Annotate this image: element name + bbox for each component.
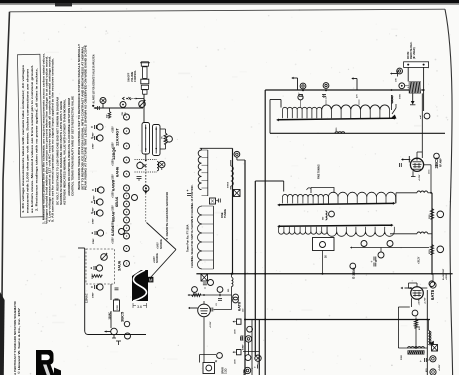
choke L21	[408, 347, 425, 349]
svg-text:6AH6: 6AH6	[115, 166, 120, 177]
callout 50	[192, 287, 198, 293]
wire chain2 output	[395, 193, 397, 204]
tube pin callout 7	[124, 193, 130, 199]
capacitor C20 fine tuning	[218, 199, 220, 203]
solder point callout 30	[234, 151, 240, 157]
tube pin callout 12	[124, 233, 130, 239]
tube pin callout 3	[124, 143, 130, 149]
tuner coil L10 ladder right	[207, 150, 209, 196]
fuse F1 box	[114, 300, 120, 311]
switch SW1 on-off	[127, 98, 136, 100]
svg-text:M: M	[149, 278, 153, 283]
wire L22 top	[428, 320, 430, 331]
tube V3 6AT8 envelope	[411, 287, 424, 300]
grid cap loop	[416, 283, 418, 287]
callout 39	[245, 336, 251, 342]
svg-text:3BC5: 3BC5	[119, 311, 124, 322]
capacitor C45	[218, 298, 222, 300]
wire dashed AGC	[145, 166, 147, 190]
capacitor C15 callout	[97, 230, 103, 236]
cap glyph triple	[241, 335, 244, 337]
wire AGC bus	[245, 319, 430, 321]
IF chain 1 taps	[282, 110, 284, 118]
dotted link upper	[135, 159, 158, 161]
tube pin callout 4	[124, 157, 130, 163]
svg-text:1000: 1000	[117, 304, 119, 310]
callout 52	[233, 294, 239, 300]
tube pin callout 6	[124, 185, 130, 191]
chassis arrow	[411, 101, 415, 105]
arrow on AGC line	[144, 191, 148, 195]
callout 11	[434, 153, 440, 159]
svg-text:+140V: +140V	[153, 256, 156, 263]
svg-text:+135V: +135V	[113, 126, 115, 133]
wire IF takeoff vertical	[244, 160, 246, 375]
svg-text:6BA6: 6BA6	[114, 196, 119, 207]
waveform tag M	[148, 277, 153, 283]
wire cluster2	[248, 342, 250, 355]
svg-text:+140V: +140V	[438, 364, 441, 371]
trap box T5	[313, 238, 335, 251]
svg-text:as bottom views. Measured val: as bottom views. Measured values are fro…	[31, 65, 34, 213]
svg-text:TUNING: TUNING	[224, 209, 227, 218]
svg-text:3.2Ω: 3.2Ω	[225, 369, 228, 374]
svg-text:+105V: +105V	[210, 321, 212, 328]
callout 41	[255, 355, 261, 361]
svg-text:100K: 100K	[235, 359, 237, 364]
callout 40	[245, 355, 251, 361]
pilot lamp I1	[100, 98, 106, 104]
svg-text:0000: 0000	[401, 354, 403, 360]
svg-text:3AU6: 3AU6	[117, 260, 122, 271]
wire main AGC bus	[143, 108, 145, 123]
svg-text:6AT8: 6AT8	[237, 301, 242, 311]
waveform scale 3.6	[132, 303, 134, 308]
callout 13	[217, 353, 223, 359]
tube V1 grid bars	[413, 161, 422, 163]
ground X1	[234, 190, 241, 197]
antenna coupler box	[141, 79, 149, 84]
tube heater pin 12AX4	[120, 102, 126, 108]
wire bus D bottom	[258, 320, 260, 375]
IF chain 3 bus	[279, 225, 391, 226]
tuner coil L10 ladder left	[198, 150, 201, 190]
svg-text:+: +	[250, 367, 254, 369]
wire V2 plate	[231, 295, 233, 310]
svg-text:+35.2V: +35.2V	[419, 256, 421, 264]
dotted link lower	[135, 171, 158, 173]
wire detector	[352, 247, 429, 249]
svg-text:+135V: +135V	[113, 142, 115, 149]
diode callout 34	[387, 241, 393, 247]
tube pin callout 13	[124, 246, 130, 252]
svg-text:ASTERISK INDICATES NOMINAL VAL: ASTERISK INDICATES NOMINAL VALUE WITH OT…	[64, 98, 67, 205]
waveform W1	[132, 270, 148, 301]
wire can link top	[160, 128, 166, 130]
capacitor C10 callout	[97, 124, 103, 130]
coil L17 interstage	[326, 211, 328, 220]
svg-text:+135V: +135V	[113, 174, 115, 181]
svg-text:+135V: +135V	[113, 237, 115, 244]
callout 36	[412, 310, 418, 316]
resistor R2 stub	[109, 108, 111, 112]
solder point 23	[143, 186, 149, 192]
switch contact B	[159, 161, 165, 167]
svg-text:3.6: 3.6	[137, 305, 142, 309]
tuner coil L11 ladder left	[198, 206, 203, 269]
capacitor C11 callout	[97, 135, 103, 141]
arrow AGC left 2	[356, 79, 358, 91]
svg-text:+265V: +265V	[446, 273, 448, 280]
solder callout 15	[399, 83, 405, 89]
note box outline	[17, 54, 43, 217]
mixer grid junction	[145, 160, 147, 162]
svg-text:+170V: +170V	[425, 297, 427, 304]
svg-text:40MF: 40MF	[242, 344, 245, 350]
capacitor C30	[380, 248, 382, 253]
wire V1 top jog	[417, 151, 422, 153]
balun cap	[141, 85, 148, 89]
resistor R6	[92, 275, 102, 278]
svg-text:+125V: +125V	[419, 174, 421, 181]
svg-text:PEAK RISING AT PICTURE TINT LE: PEAK RISING AT PICTURE TINT LEVELS SHOWN…	[85, 45, 88, 190]
callout 43	[247, 326, 253, 332]
wire can link bottom	[165, 144, 167, 149]
wire tuner top	[200, 147, 233, 149]
tube pin callout 2	[124, 128, 130, 134]
svg-text:+135V: +135V	[113, 205, 115, 212]
capacitor C40	[392, 73, 397, 75]
callout 32	[323, 83, 329, 89]
junction dots B+ bus	[232, 273, 234, 275]
callout 38	[430, 369, 436, 375]
ground X3	[432, 345, 438, 352]
resistor box R40	[237, 319, 242, 324]
wire main dashed lower	[145, 190, 147, 222]
wire chain3 output	[390, 233, 417, 235]
svg-text:6AT8: 6AT8	[430, 289, 435, 300]
svg-text:20MF: 20MF	[93, 218, 95, 224]
svg-text:000: 000	[228, 289, 230, 292]
control R5 brightness	[101, 254, 108, 261]
capacitor C9 plus	[187, 193, 191, 195]
svg-text:47K: 47K	[418, 326, 421, 330]
svg-text:2. Resistance readings taken: 2. Resistance readings taken with no pow…	[36, 68, 39, 211]
callout 6	[424, 113, 430, 119]
arrow L22	[430, 341, 434, 346]
svg-text:+135V: +135V	[113, 221, 115, 228]
svg-text:12AX4GT: 12AX4GT	[115, 128, 120, 146]
coil L15 on return line	[335, 132, 345, 134]
antenna lead-in body	[143, 67, 147, 79]
waveform pointer	[151, 250, 177, 278]
coil L22 vertical	[428, 331, 429, 345]
callout letter G2	[125, 333, 131, 339]
junction dots AGC bus	[244, 319, 246, 321]
resistor R31	[414, 320, 417, 329]
wire 120VAC horizontal	[88, 334, 146, 336]
wire chain2 feed	[255, 180, 283, 182]
switch contact A	[137, 162, 143, 168]
svg-text:FINE TUNING: FINE TUNING	[319, 164, 321, 179]
svg-text:© Howard W. Sams & Co., Inc. 1: © Howard W. Sams & Co., Inc. 1957	[17, 307, 21, 374]
tube pin callout 10	[124, 217, 130, 223]
svg-text:+120V: +120V	[419, 299, 421, 306]
tube pin callout 8	[124, 201, 130, 207]
callout 21	[166, 136, 172, 142]
wire interlock	[78, 247, 85, 249]
callout 51	[217, 287, 223, 293]
svg-text:Tuner Part No. FT-100A: Tuner Part No. FT-100A	[187, 224, 190, 252]
svg-text:00000: 00000	[228, 181, 230, 188]
callout G	[429, 281, 435, 287]
shield can T2	[153, 125, 161, 156]
tube pin callout 14	[124, 261, 130, 267]
svg-text:5. All controls set for norma: 5. All controls set for normal operation…	[52, 58, 55, 222]
svg-text:B+ BOOST: B+ BOOST	[443, 268, 445, 280]
callout 37	[430, 356, 436, 362]
cap glyph col	[115, 287, 119, 289]
tube V1 cathode pin	[412, 171, 414, 176]
tube V2 grid arrow	[190, 307, 198, 309]
wire V1 plate down	[424, 164, 431, 166]
svg-text:1. DC voltage measurements ta: 1. DC voltage measurements taken with va…	[22, 64, 25, 213]
svg-text:measured with 1,000 ohm per vo: measured with 1,000 ohm per volt meter. …	[27, 68, 30, 213]
svg-text:0000: 0000	[399, 93, 401, 99]
IF chain 2 bus	[279, 203, 393, 204]
wire V2 cathode	[203, 317, 205, 363]
callout G audio	[233, 297, 239, 303]
speaker transformer box	[203, 363, 215, 374]
IF chain 1 callout stub 2	[325, 100, 327, 106]
antenna terminal cap	[141, 62, 148, 66]
wire return line	[270, 132, 445, 134]
wire T10 bottom	[412, 93, 414, 101]
wire screen bus	[431, 193, 433, 274]
jumper wire over chain2	[311, 188, 334, 194]
svg-text:SOURCE: SOURCE	[157, 253, 159, 263]
svg-text:20MF: 20MF	[93, 292, 95, 298]
coil L25	[231, 274, 233, 277]
resistor R30	[192, 294, 201, 297]
wire V3 plate	[426, 290, 428, 375]
capacitor C16 callout	[96, 265, 102, 271]
tuner coil L11 ladder right	[212, 206, 214, 269]
coil L16 riser	[391, 95, 393, 103]
wire TB1 right leg	[423, 67, 425, 111]
bullet parts note	[92, 105, 94, 107]
tube pin callout 9	[124, 209, 130, 215]
svg-text:20MF: 20MF	[93, 143, 95, 149]
tube pin callout 1	[124, 114, 130, 120]
callout letter D	[124, 321, 129, 326]
tuner ladder rungs upper	[202, 149, 208, 151]
ground X2	[201, 274, 208, 281]
svg-text:+135V: +135V	[113, 159, 115, 166]
svg-text:CHANNEL SELECTOR SWITCH SHOWN: CHANNEL SELECTOR SWITCH SHOWN IN CHANNEL…	[190, 185, 194, 268]
wire TB1 left leg	[407, 67, 409, 81]
tube V3 grids	[413, 290, 422, 292]
tube V2 grids	[200, 307, 208, 309]
wire plate feed top	[265, 89, 423, 91]
callout 24	[132, 195, 138, 201]
IF chain 3 taps	[278, 227, 280, 232]
svg-text:✶ REMOTE CHASSIS GROUND: ✶ REMOTE CHASSIS GROUND	[165, 192, 169, 240]
tube V3 grid arrow	[405, 287, 411, 289]
IF transformer chain 3 coils	[279, 232, 328, 235]
svg-text:100K: 100K	[235, 329, 237, 334]
arrow AGC left	[297, 78, 299, 90]
svg-text:(IF USED): (IF USED)	[413, 47, 416, 59]
callout letter A	[119, 229, 125, 235]
callout below bus	[430, 282, 436, 288]
svg-text:3BC5: 3BC5	[434, 157, 439, 169]
wire V3 cathode loop	[411, 298, 413, 307]
fine tuning box	[210, 198, 216, 204]
IF chain 2 taps	[282, 197, 284, 203]
IF chain 1 callout stub 3	[358, 100, 360, 106]
callout 42	[244, 367, 250, 373]
terminal strip TB1	[404, 62, 429, 68]
svg-text:+: +	[187, 189, 189, 193]
resistor R21	[430, 245, 433, 255]
coil L20	[391, 103, 393, 110]
shield can T1	[142, 123, 150, 155]
wire switch stub	[136, 98, 144, 100]
wire fuse	[110, 284, 112, 300]
svg-text:ALL PARTS LIST FOR ALTERNATE T: ALL PARTS LIST FOR ALTERNATE TO VALUE OR…	[93, 54, 96, 103]
svg-text:RF AMP: RF AMP	[439, 158, 442, 167]
wire sound takeoff	[189, 294, 232, 296]
svg-text:CONTROL TERMS FROM BEAUTY MRG: CONTROL TERMS FROM BEAUTY MRG OF SETS RE…	[72, 96, 75, 196]
svg-text:25MF: 25MF	[244, 369, 246, 375]
dashed control box	[86, 249, 115, 284]
callout 35	[350, 263, 356, 269]
resistor R3	[164, 133, 167, 144]
svg-text:+135V: +135V	[113, 191, 115, 198]
transformer T10 winding	[409, 82, 421, 94]
capacitor C13 callout	[97, 199, 103, 205]
wire callout to bus	[236, 157, 238, 160]
solder callout 14	[397, 68, 403, 74]
wire bus E bottom	[251, 320, 253, 375]
tube V1 grid arrow	[403, 159, 410, 161]
IF chain 1 callout stub 1	[300, 100, 302, 108]
tuner ladder rungs	[202, 205, 213, 207]
tube V2 envelope	[198, 304, 211, 317]
mixer stub Q1	[395, 104, 397, 108]
svg-text:20MF: 20MF	[93, 238, 95, 244]
IF transformer chain 1 coils	[283, 107, 322, 109]
balun body	[143, 90, 147, 94]
resistor R20	[430, 209, 433, 220]
publisher logo	[36, 350, 55, 375]
svg-text:1K: 1K	[326, 255, 328, 258]
tube pin callout 11	[124, 225, 130, 231]
capacitor C44	[203, 282, 207, 284]
capacitor C1 line input	[97, 106, 99, 110]
svg-text:+140V: +140V	[157, 242, 160, 249]
callout 31	[300, 83, 306, 89]
capacitor C8	[137, 176, 142, 178]
wire antenna down	[143, 94, 145, 108]
svg-text:coil: coil	[420, 115, 422, 119]
wire R31 down	[415, 328, 417, 348]
svg-text:SOURCE: SOURCE	[161, 239, 163, 249]
coil L12	[231, 166, 234, 186]
wire B+ bus	[196, 273, 452, 275]
IF transformer chain 2 coils	[283, 194, 329, 197]
wire bus B	[254, 181, 256, 356]
svg-text:CONTROL: CONTROL	[134, 70, 137, 82]
diode callout 33	[361, 241, 367, 247]
wire selector right bus	[232, 148, 234, 273]
wire bus C	[264, 90, 266, 375]
wire heater line	[97, 107, 144, 109]
capacitor C17 callout	[97, 284, 103, 290]
resistor box R41	[237, 350, 242, 355]
wire speaker corner	[200, 354, 216, 356]
coil L2	[157, 162, 159, 171]
svg-text:A PHOTOFACT STANDARD NOTATION: A PHOTOFACT STANDARD NOTATION SCHEMATIC	[13, 300, 17, 375]
pilot neon I2	[111, 328, 118, 335]
svg-text:120VAC: 120VAC	[84, 293, 88, 303]
capacitor C14 callout	[97, 210, 103, 216]
wire 120VAC vertical	[84, 248, 86, 331]
volume control R1	[139, 101, 146, 108]
svg-text:000: 000	[323, 217, 325, 220]
tube pin callout 5	[124, 171, 130, 177]
capacitor C12 callout	[98, 187, 104, 193]
IF chain 1 bus	[278, 118, 394, 120]
wire chain1 left bracket	[269, 100, 271, 134]
wire mixer right	[421, 93, 423, 158]
tube V1 3BC5 envelope	[410, 158, 423, 171]
